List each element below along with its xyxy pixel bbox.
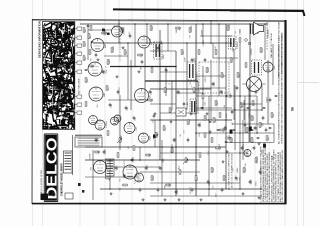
ground [200, 198, 203, 201]
svg-text:12AD6: 12AD6 [228, 135, 231, 141]
svg-text:12V6: 12V6 [198, 110, 200, 114]
resistor R39 [227, 95, 231, 97]
ground [222, 160, 225, 163]
wire [110, 166, 160, 168]
wire [100, 188, 262, 190]
wire [234, 85, 236, 150]
ground [122, 46, 125, 49]
capacitor C2 [141, 61, 144, 62]
svg-text:VOL: VOL [119, 178, 121, 182]
tube V8 [111, 117, 119, 125]
svg-text:12AF6: 12AF6 [175, 28, 178, 33]
wire [140, 171, 200, 173]
wire [176, 92, 203, 94]
capacitor C8 [212, 83, 215, 84]
resistor R14 [237, 73, 239, 77]
tube V5 [138, 36, 150, 48]
tube V16 [244, 150, 251, 157]
filter capacitor blob [249, 127, 252, 132]
scan artifact lines [32, 0, 34, 226]
IF transformer T4 [190, 99, 197, 114]
junction [118, 23, 120, 25]
wire [208, 96, 210, 196]
dashed enclosure [199, 62, 229, 93]
wire [273, 124, 275, 142]
wire [226, 142, 274, 144]
svg-text:SW: SW [120, 188, 122, 191]
wire [202, 66, 204, 110]
capacitor C12 [254, 127, 257, 128]
junction [134, 23, 136, 25]
wire [139, 147, 141, 160]
wire [210, 60, 212, 120]
svg-text:12AE6: 12AE6 [229, 93, 232, 98]
wire [232, 123, 274, 125]
svg-text:2.2MEG: 2.2MEG [113, 45, 115, 52]
capacitor C42 [255, 91, 258, 92]
svg-text:500K: 500K [163, 54, 165, 59]
resistor R28 [123, 184, 127, 186]
ground [142, 198, 145, 201]
junction cluster [240, 100, 262, 120]
svg-text:OUTPUT: OUTPUT [119, 86, 121, 94]
resistor R27 [106, 177, 110, 179]
wire [264, 24, 266, 60]
junction [239, 95, 241, 97]
junction [109, 159, 111, 161]
svg-text:VIBRATOR AND RECTIFIER CIRCUIT: VIBRATOR AND RECTIFIER CIRCUIT 6 VOLT [278, 35, 281, 78]
junction [146, 42, 148, 44]
svg-text:6. BE CRITICAL KEEP LEADS AWAY: 6. BE CRITICAL KEEP LEADS AWAY FROM GRID… [281, 149, 284, 202]
svg-text:SW: SW [126, 51, 128, 54]
wire [160, 152, 247, 154]
wire [160, 71, 187, 73]
wire [119, 95, 121, 150]
capacitor C71 [209, 121, 212, 122]
wire [165, 66, 167, 96]
capacitor C4 [165, 69, 168, 70]
tube V1 [112, 26, 123, 37]
tube V7 [95, 120, 105, 130]
resistor R42 [102, 32, 106, 34]
capacitor C28 [191, 189, 194, 190]
resistor R50 [189, 28, 191, 32]
vibrator V13 [243, 77, 266, 92]
svg-text:BOTTOM VIEW: BOTTOM VIEW [79, 78, 81, 94]
resistor R66 [193, 88, 195, 92]
resistor R33 [211, 168, 213, 172]
svg-text:12AD6: 12AD6 [225, 113, 228, 119]
svg-text:OUTPUT: OUTPUT [124, 158, 126, 166]
capacitor C41 [231, 111, 234, 112]
wire [150, 88, 211, 90]
tube V2 [91, 39, 104, 52]
capacitor C6 [191, 59, 194, 60]
tuner assembly [75, 137, 102, 147]
junction [195, 132, 197, 134]
wire [257, 24, 259, 34]
svg-text:12K5: 12K5 [169, 183, 171, 187]
junction [109, 188, 111, 190]
capacitor C48 [183, 103, 186, 104]
svg-text:250MMF: 250MMF [251, 47, 253, 55]
resistor R56 [204, 116, 206, 120]
wire [150, 182, 240, 184]
svg-text:12V6: 12V6 [213, 168, 215, 172]
capacitor C1 [129, 35, 132, 36]
resistor R29 [151, 176, 153, 180]
svg-text:12K5: 12K5 [194, 58, 196, 62]
tube V9 [124, 123, 135, 134]
svg-text:1MEG: 1MEG [200, 122, 202, 128]
junction [159, 66, 161, 68]
svg-text:SW: SW [268, 137, 270, 140]
output transformer T5 [251, 25, 254, 35]
ground [206, 112, 209, 115]
tube V12 [123, 165, 137, 179]
dashed leads [266, 22, 268, 50]
wire [110, 66, 176, 68]
junction [246, 152, 248, 154]
wire [196, 75, 226, 77]
junction [186, 42, 188, 44]
wire [171, 81, 173, 110]
resistor R30 [166, 184, 170, 186]
wire [233, 49, 235, 120]
wire [272, 44, 274, 85]
junction [225, 42, 227, 44]
capacitor C14 [224, 127, 227, 128]
resistor R60 [246, 128, 248, 132]
tube V3 [88, 62, 102, 76]
svg-text:2.2MEG: 2.2MEG [229, 23, 231, 30]
tube V4 [89, 87, 103, 101]
junction [210, 42, 212, 44]
potentiometer tone [153, 134, 158, 139]
svg-text:262KC: 262KC [208, 66, 210, 72]
wire [267, 60, 269, 124]
junction [208, 188, 210, 190]
wire [202, 24, 204, 43]
wire [213, 57, 238, 59]
resistor R3 [138, 54, 142, 56]
resistor R55 [213, 118, 215, 122]
svg-text:262KC: 262KC [105, 148, 107, 154]
capacitor C13 [262, 117, 265, 118]
svg-text:2ND: 2ND [104, 93, 106, 97]
svg-text:1600KC: 1600KC [203, 39, 205, 46]
resistor R22 [155, 133, 157, 137]
junction [161, 159, 163, 161]
capacitor C49 [153, 115, 156, 116]
capacitor C16 [187, 139, 190, 140]
capacitor C43 [269, 99, 272, 100]
svg-text:250MMF: 250MMF [123, 26, 125, 34]
svg-text:12AF6: 12AF6 [146, 165, 149, 170]
resistor R11 [215, 50, 217, 54]
capacitor C10 [236, 87, 239, 88]
svg-text:12AD6: 12AD6 [132, 157, 135, 163]
svg-text:250MMF: 250MMF [89, 152, 91, 160]
IF transformer T3 [229, 36, 237, 49]
resistor R55 [90, 26, 92, 30]
wire [200, 87, 226, 89]
component callout labels [77, 27, 82, 30]
svg-text:DIAL LAMP 12V 7.5A FUSE: DIAL LAMP 12V 7.5A FUSE [270, 32, 273, 58]
resistor R10 [206, 68, 208, 72]
junction [239, 152, 241, 154]
junction [264, 23, 266, 25]
svg-text:OSC: OSC [136, 126, 138, 131]
junction [195, 146, 197, 148]
wire [108, 99, 148, 101]
wire [200, 35, 232, 37]
capacitor C27 [175, 191, 178, 192]
resistor R13 [230, 58, 232, 62]
svg-text:2.2MEG: 2.2MEG [219, 143, 221, 150]
wire [196, 107, 232, 109]
electrolytic capacitors [230, 130, 233, 134]
resistor R43 [88, 34, 90, 38]
resistor R38 [215, 101, 217, 105]
resistor R49 [176, 27, 180, 29]
wire [145, 80, 198, 82]
svg-text:2.2MEG: 2.2MEG [240, 28, 242, 35]
junction [159, 119, 161, 121]
tube V17 [89, 116, 98, 125]
junction [175, 146, 177, 148]
capacitor C37 [117, 91, 120, 92]
oscillator coil L2 [106, 159, 115, 176]
wire [150, 103, 176, 105]
wire [85, 146, 226, 148]
junction [144, 66, 146, 68]
svg-text:DELCO RADIO DIVISION KOKOMO IN: DELCO RADIO DIVISION KOKOMO INDIANA [281, 32, 284, 74]
junction [202, 23, 204, 25]
tube V11 [94, 161, 107, 174]
junction [225, 95, 227, 97]
junction [167, 23, 169, 25]
capacitor C40 [149, 91, 152, 92]
capacitor C31 [235, 177, 238, 178]
wire [109, 160, 111, 189]
junction [261, 109, 263, 111]
page edge top bar [113, 9, 305, 16]
resistor R2 [124, 50, 126, 54]
tube V18 [114, 115, 121, 122]
wire [144, 48, 146, 100]
junction [146, 23, 148, 25]
svg-text:262KC: 262KC [189, 118, 191, 124]
wire [248, 85, 250, 142]
wire [195, 24, 197, 196]
resistor R57 [187, 120, 189, 124]
wire [225, 24, 227, 189]
resistor R12 [221, 73, 223, 77]
circuit board layout artwork [42, 21, 76, 129]
ground [116, 75, 119, 78]
svg-text:CHEVROLET MODEL 985079: CHEVROLET MODEL 985079 [61, 163, 64, 196]
resistor R19 [199, 153, 201, 157]
tube V14 [263, 62, 273, 72]
capacitor C78 [263, 107, 266, 108]
wire [87, 24, 89, 60]
svg-text:2.2MEG: 2.2MEG [237, 42, 239, 49]
wire [239, 43, 241, 189]
svg-text:12AD6: 12AD6 [236, 168, 239, 174]
potentiometer sens [183, 159, 188, 164]
capacitor C11 [244, 124, 247, 125]
wire [197, 81, 199, 110]
capacitor C25 [139, 189, 142, 190]
junction [195, 80, 197, 82]
svg-text:96: 96 [291, 107, 295, 111]
ground [190, 112, 193, 115]
junction [175, 80, 177, 82]
resistor R32 [195, 176, 197, 180]
svg-text:SW: SW [97, 104, 99, 107]
svg-text:12AF6: 12AF6 [108, 59, 111, 64]
ground [258, 196, 261, 199]
junction [92, 159, 94, 161]
resistor R17 [230, 138, 232, 142]
resistor R7 [169, 108, 171, 112]
resistor R52 [239, 38, 241, 42]
capacitor C34 [95, 54, 98, 55]
resistor R24 [119, 138, 121, 142]
capacitor C7 [204, 59, 207, 60]
junction [239, 188, 241, 190]
capacitor C35 [102, 71, 105, 72]
capacitor C80 [275, 95, 278, 96]
resistor R54 [245, 63, 247, 67]
svg-text:VOL: VOL [107, 166, 109, 170]
wire [249, 24, 251, 142]
wire [134, 24, 136, 66]
DELCO logo [44, 134, 61, 203]
wire [85, 159, 200, 161]
capacitor C9 [220, 91, 223, 92]
resistor R50 [83, 28, 85, 32]
ground [154, 112, 157, 115]
capacitor C73 [225, 141, 228, 142]
svg-text:262KC: 262KC [177, 188, 179, 194]
wire [118, 20, 120, 43]
resistor R53 [89, 50, 91, 54]
resistor R45 [85, 102, 87, 106]
potentiometer VOL R-21 [117, 138, 122, 143]
capacitor C26 [157, 189, 160, 190]
junction [159, 42, 161, 44]
svg-text:250MMF: 250MMF [191, 24, 193, 32]
wire [80, 23, 268, 25]
capacitor C29 [207, 181, 210, 182]
resistor R56 [220, 129, 224, 131]
capacitor C32 [249, 181, 252, 182]
resistor R5 [164, 88, 166, 92]
junction [175, 66, 177, 68]
junction [159, 80, 161, 82]
resistor R31 [179, 170, 181, 174]
capacitor C67 [87, 25, 90, 26]
junction [256, 132, 258, 134]
resistor R63 [266, 136, 268, 140]
svg-text:12V6: 12V6 [232, 138, 234, 142]
capacitor C39 [133, 117, 136, 118]
capacitor C79 [269, 127, 272, 128]
resistor R25 [107, 131, 109, 135]
resistor R8 [181, 50, 183, 54]
resistor R51 [227, 26, 229, 30]
junction [239, 132, 241, 134]
schematic frame border [32, 19, 286, 203]
junction [130, 66, 132, 68]
resistor R48 [150, 26, 152, 30]
wire [196, 109, 262, 111]
resistor R47 [106, 86, 108, 90]
resistor R21 [171, 148, 173, 152]
wire [218, 24, 220, 66]
ground [170, 120, 173, 123]
capacitor C22 [103, 151, 106, 152]
wire [161, 140, 163, 196]
capacitor C17 [173, 139, 176, 140]
capacitor C18 [159, 167, 162, 168]
resistor R20 [185, 158, 187, 162]
tube V10 [139, 133, 149, 143]
junction [234, 109, 236, 111]
wire [218, 66, 220, 96]
wire [210, 20, 212, 43]
ground [138, 70, 141, 73]
wire [261, 85, 263, 110]
capacitor C46 [265, 129, 268, 130]
resistor R1 [121, 28, 123, 32]
capacitor C38 [125, 107, 128, 108]
ground [226, 150, 229, 153]
resistor R57 [211, 138, 213, 142]
capacitor C44 [241, 147, 244, 148]
wire [186, 43, 188, 110]
resistor R37 [202, 94, 204, 98]
capacitor C23 [95, 139, 98, 140]
wire [159, 30, 161, 160]
capacitor C36 [109, 104, 112, 105]
ground [97, 58, 100, 61]
resistor R16 [251, 116, 253, 120]
resistor R53 [260, 48, 262, 52]
ground [110, 192, 113, 195]
wire [150, 119, 232, 121]
speaker SP1 [254, 22, 264, 35]
svg-text:OUTPUT: OUTPUT [197, 71, 199, 80]
resistor R62 [259, 123, 261, 127]
junction [249, 23, 251, 25]
wire [92, 150, 94, 200]
resistor R18 [216, 147, 220, 149]
wire [154, 120, 156, 147]
resistor R46 [107, 60, 109, 64]
resistor R9 [198, 50, 200, 54]
capacitor C33 [259, 171, 262, 172]
resistor R35 [243, 168, 245, 172]
svg-text:12K5: 12K5 [117, 166, 119, 170]
tube V6 [135, 89, 149, 103]
resistor R59 [226, 137, 230, 139]
resistor R65 [204, 133, 206, 137]
capacitor C77 [257, 137, 260, 138]
capacitor C75 [247, 107, 250, 108]
